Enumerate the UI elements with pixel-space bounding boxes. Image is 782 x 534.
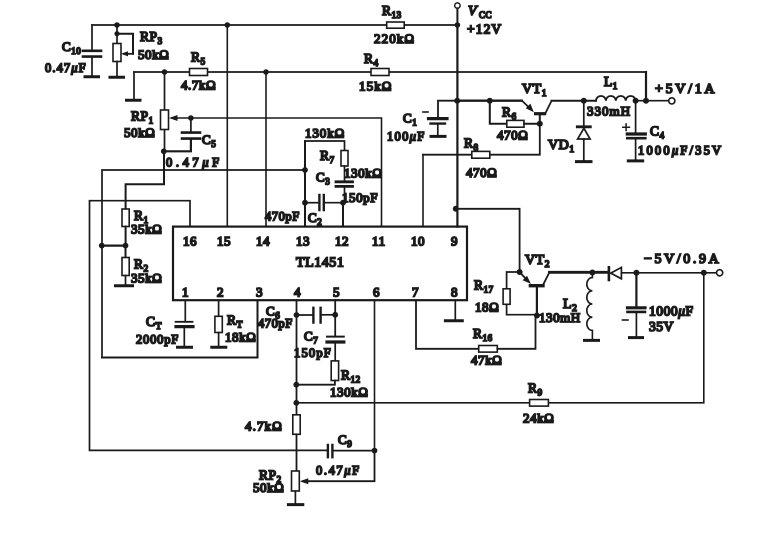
ground C4 xyxy=(628,159,642,162)
svg-text:VT2: VT2 xyxy=(525,253,550,270)
resistor R7 xyxy=(341,151,348,167)
svg-text:TL1451: TL1451 xyxy=(296,256,344,271)
svg-text:V: V xyxy=(468,4,478,19)
svg-text:0.47μF: 0.47μF xyxy=(166,156,223,170)
node R1/R2 tap to x102 line xyxy=(99,243,105,249)
wire VT2 collector rail xyxy=(549,271,607,274)
svg-text:470pF: 470pF xyxy=(258,317,293,331)
svg-text:−5V/0.9A: −5V/0.9A xyxy=(644,252,721,267)
diode VD2 xyxy=(608,267,611,280)
capacitor C2 xyxy=(305,202,318,204)
node +12 rail split xyxy=(454,98,460,104)
svg-text:35kΩ: 35kΩ xyxy=(131,222,162,237)
node L2 top xyxy=(589,270,595,276)
svg-text:0.47μF: 0.47μF xyxy=(316,464,361,478)
wire y72 elbow down to output xyxy=(645,72,647,101)
svg-text:CT: CT xyxy=(146,314,162,332)
capacitor C6 xyxy=(297,314,313,316)
node pin13/feedback xyxy=(302,167,308,173)
svg-text:R13: R13 xyxy=(382,3,402,20)
svg-text:C5: C5 xyxy=(202,132,216,149)
svg-text:10: 10 xyxy=(411,234,425,249)
wire -5V output rail xyxy=(636,272,716,274)
resistor R6 xyxy=(490,101,507,124)
potentiometer RP1 xyxy=(164,72,166,151)
wire top rail y=25 xyxy=(92,24,457,26)
wire Vcc vertical to pin9 xyxy=(456,25,458,227)
svg-text:150pF: 150pF xyxy=(294,346,332,360)
node pin13/C2 xyxy=(302,200,308,206)
resistor RT at pin2 xyxy=(218,300,220,316)
wire RP1 bottom elbow to R1 xyxy=(126,151,164,209)
node VT2 base / R16 xyxy=(534,313,540,319)
wire left elbow to ground xyxy=(133,72,135,99)
svg-text:C10: C10 xyxy=(62,39,81,56)
wire C10 drop xyxy=(91,25,93,50)
wire pin12 xyxy=(342,203,344,227)
ground RT xyxy=(212,346,226,349)
resistor R17 xyxy=(507,272,520,289)
ground R2 xyxy=(116,284,133,287)
svg-text:15kΩ: 15kΩ xyxy=(359,79,393,94)
capacitor C1 xyxy=(438,101,457,118)
svg-text:R9: R9 xyxy=(528,381,543,398)
node R13 right on Vcc line xyxy=(455,22,461,28)
resistor R9 xyxy=(530,400,549,407)
wire pin6 down xyxy=(374,300,376,450)
wire pin5 down xyxy=(334,300,336,335)
svg-text:R17: R17 xyxy=(474,278,494,295)
svg-text:470pF: 470pF xyxy=(265,210,300,224)
node pin14 drop xyxy=(263,69,269,75)
svg-text:24kΩ: 24kΩ xyxy=(523,411,554,426)
ground RP2 xyxy=(288,503,302,506)
svg-text:6: 6 xyxy=(373,285,380,300)
svg-text:12: 12 xyxy=(335,234,349,249)
wire pin13 net vertical xyxy=(304,141,306,227)
svg-text:VD1: VD1 xyxy=(548,138,575,155)
svg-text:R7: R7 xyxy=(320,148,335,165)
diode VD1 xyxy=(583,101,585,126)
svg-text:330mH: 330mH xyxy=(587,104,631,119)
potentiometer RP3 xyxy=(116,25,118,44)
node C6 left xyxy=(294,312,300,318)
svg-text:130kΩ: 130kΩ xyxy=(305,126,345,141)
resistor R4 xyxy=(371,69,389,76)
svg-text:8: 8 xyxy=(451,285,458,300)
svg-text:50kΩ: 50kΩ xyxy=(253,480,284,495)
svg-text:4.7kΩ: 4.7kΩ xyxy=(245,419,283,434)
svg-text:1: 1 xyxy=(182,285,189,300)
wire pin6 to RP2 wiper xyxy=(303,451,375,482)
svg-text:+12V: +12V xyxy=(467,22,502,37)
wire pin7 to R16 xyxy=(416,300,479,349)
node C9 right / pin6 line xyxy=(372,448,378,454)
node RP1 top xyxy=(162,69,168,75)
wire RP1 wiper to pin11 xyxy=(172,118,382,227)
resistor R1 xyxy=(122,209,129,227)
node pin9 line / VT2 feed xyxy=(453,206,459,212)
wire +12 rail to VT1 emitter xyxy=(457,99,522,101)
potentiometer RP2 xyxy=(292,471,300,491)
svg-text:+5V/1A: +5V/1A xyxy=(655,82,717,97)
wire box bottom y=357.5 (pin3 loop) xyxy=(102,300,258,357)
svg-text:130mH: 130mH xyxy=(539,310,581,325)
svg-text:4: 4 xyxy=(294,285,301,300)
capacitor C5 xyxy=(190,118,192,132)
capacitor C7 xyxy=(327,336,344,338)
svg-text:150pF: 150pF xyxy=(342,190,378,205)
svg-text:C7: C7 xyxy=(304,329,318,346)
capacitor C8 (1000uF 35V) xyxy=(635,273,637,307)
svg-text:RT: RT xyxy=(227,313,243,331)
terminal Vcc xyxy=(455,3,460,8)
svg-text:C2: C2 xyxy=(308,210,322,227)
capacitor C4 xyxy=(635,101,637,133)
svg-text:18Ω: 18Ω xyxy=(475,300,499,315)
svg-text:C9: C9 xyxy=(338,432,352,449)
wire base-R8 vertical xyxy=(423,124,540,155)
svg-text:R12: R12 xyxy=(341,368,361,385)
svg-text:130kΩ: 130kΩ xyxy=(344,166,382,181)
svg-text:470Ω: 470Ω xyxy=(497,128,528,143)
wire pin15 drop from top rail xyxy=(226,25,228,227)
node top-RP3 xyxy=(114,22,120,28)
node C3/C2/pin12 xyxy=(340,200,346,206)
wire pin14 drop from y72 rail xyxy=(265,72,267,227)
svg-text:7: 7 xyxy=(412,285,419,300)
svg-text:130kΩ: 130kΩ xyxy=(330,385,368,400)
wire pin4 chain down xyxy=(296,300,298,415)
resistor R2 xyxy=(125,246,127,258)
resistor R16 xyxy=(479,346,498,353)
wire to VT2 emitter xyxy=(456,209,520,272)
svg-text:4.7kΩ: 4.7kΩ xyxy=(181,78,216,93)
wire +5V output xyxy=(636,100,669,102)
svg-text:35kΩ: 35kΩ xyxy=(131,271,162,286)
svg-text:1000μF/35V: 1000μF/35V xyxy=(638,144,723,158)
svg-text:14: 14 xyxy=(256,234,270,249)
node top rail / pin15 line xyxy=(225,22,231,28)
node VT1 base / R6 right xyxy=(537,121,543,127)
svg-text:RP3: RP3 xyxy=(140,29,163,46)
node VD1 top xyxy=(581,98,587,104)
node output cap xyxy=(633,270,639,276)
svg-text:R5: R5 xyxy=(191,50,206,67)
svg-text:VT1: VT1 xyxy=(522,82,547,99)
svg-text:16: 16 xyxy=(183,234,197,249)
ground C10 xyxy=(85,75,99,78)
ground CT xyxy=(178,346,192,349)
inductor L2 xyxy=(587,273,593,340)
op-amp U1 TL1451 IC body xyxy=(173,227,467,301)
transistor VT1 (PNP) xyxy=(522,101,532,110)
wire pin16 loop: pin16 left then down to C9 line xyxy=(90,201,327,451)
terminal +5V xyxy=(669,98,675,104)
svg-text:35V: 35V xyxy=(649,319,674,334)
ground VD1 xyxy=(577,160,592,163)
svg-text:18kΩ: 18kΩ xyxy=(225,330,256,345)
svg-text:47kΩ: 47kΩ xyxy=(471,353,502,368)
ground left elbow xyxy=(127,99,141,102)
ground RP3 xyxy=(110,76,124,79)
capacitor C10 xyxy=(83,51,101,57)
svg-text:220kΩ: 220kΩ xyxy=(374,31,415,46)
resistor R13 xyxy=(387,22,405,28)
svg-text:R4: R4 xyxy=(364,51,379,68)
svg-text:470Ω: 470Ω xyxy=(466,165,497,180)
node L1 right / C4 xyxy=(633,98,639,104)
wire R9 feedback: -5V down and left xyxy=(296,273,704,403)
svg-text:50kΩ: 50kΩ xyxy=(138,47,169,62)
ground L2 xyxy=(585,339,599,342)
svg-text:L1: L1 xyxy=(604,74,618,91)
terminal -5V xyxy=(717,270,723,276)
svg-text:R16: R16 xyxy=(473,326,493,343)
svg-text:C4: C4 xyxy=(650,124,665,141)
node C6 right / pin5 xyxy=(332,312,338,318)
svg-text:50kΩ: 50kΩ xyxy=(124,125,155,140)
svg-text:13: 13 xyxy=(296,234,310,249)
capacitor C3 xyxy=(344,166,346,181)
svg-text:11: 11 xyxy=(372,234,386,249)
svg-text:5: 5 xyxy=(333,285,340,300)
ground pin8 xyxy=(454,300,456,319)
svg-text:9: 9 xyxy=(451,234,458,249)
svg-text:15: 15 xyxy=(217,234,231,249)
svg-text:1000μF: 1000μF xyxy=(649,304,694,319)
svg-text:0.47μF: 0.47μF xyxy=(45,61,87,75)
svg-text:2: 2 xyxy=(217,285,224,300)
wire feedback rail y=72 xyxy=(134,71,646,73)
capacitor C9 xyxy=(328,445,333,457)
svg-text:R8: R8 xyxy=(464,136,479,153)
svg-text:CC: CC xyxy=(479,10,492,20)
svg-text:C1: C1 xyxy=(403,111,417,128)
wire pin10 drop xyxy=(422,155,424,227)
inductor L1 xyxy=(596,96,636,101)
svg-text:2000pF: 2000pF xyxy=(136,333,179,347)
node R9 feedback tap xyxy=(701,270,707,276)
node R12 to pin4 line xyxy=(293,382,299,388)
resistor 4.7k xyxy=(293,415,300,435)
node VT2 emitter xyxy=(517,269,523,275)
resistor R12 xyxy=(331,361,338,381)
svg-text:C3: C3 xyxy=(316,170,330,187)
resistor R8 xyxy=(472,151,490,158)
node R9 line to pin4 line xyxy=(293,400,299,406)
svg-text:R6: R6 xyxy=(502,105,517,122)
ground C8 xyxy=(630,336,643,339)
capacitor CT at pin1 xyxy=(184,300,186,321)
svg-text:RP1: RP1 xyxy=(131,109,154,126)
resistor R5 xyxy=(190,69,208,76)
node R6 left xyxy=(487,98,493,104)
wire VT1 collector to L1 xyxy=(552,100,597,102)
wire 4.7k to RP2 xyxy=(296,434,298,471)
wire pin13-to-divider y=170 xyxy=(102,170,305,358)
transistor VT2 (PNP) xyxy=(520,272,529,282)
svg-text:100μF: 100μF xyxy=(387,130,426,144)
svg-text:3: 3 xyxy=(256,285,263,300)
wire error-net top xyxy=(305,141,345,151)
